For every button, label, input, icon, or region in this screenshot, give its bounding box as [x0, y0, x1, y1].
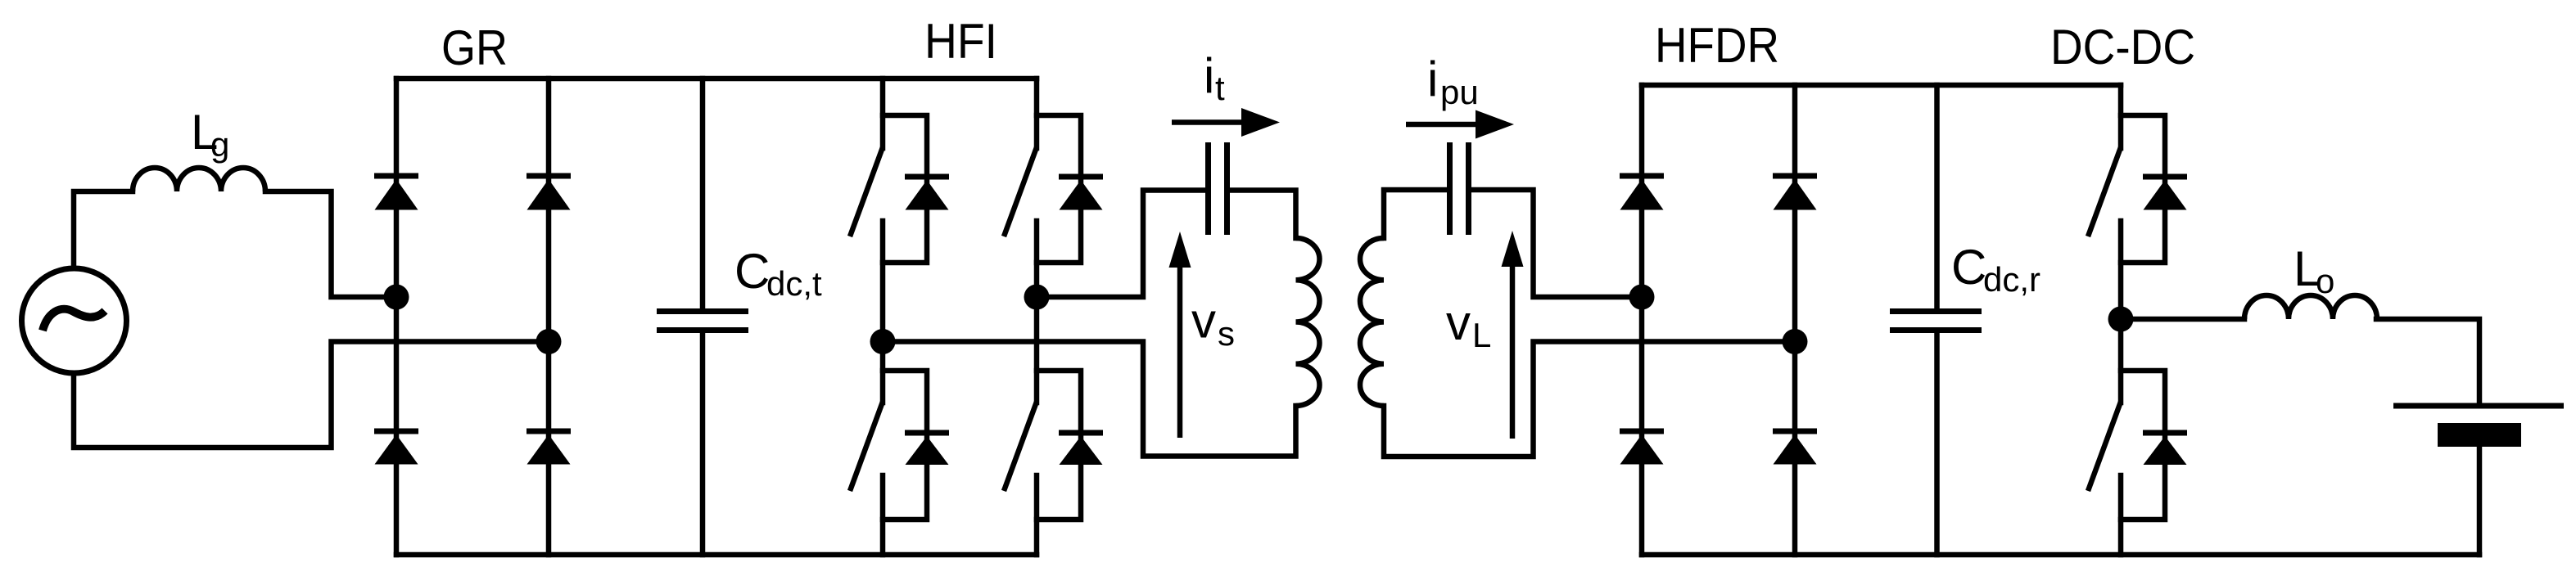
svg-text:DC-DC: DC-DC	[2050, 20, 2195, 74]
svg-text:s: s	[1218, 314, 1235, 353]
current arrow ipu shaft	[1406, 122, 1482, 128]
voltage arrow vs head	[1169, 232, 1191, 268]
transformer secondary coil Ls	[1360, 238, 1384, 406]
svg-text:i: i	[1427, 52, 1438, 106]
svg-text:dc,r: dc,r	[1983, 260, 2040, 299]
switch S3 (HFI leg2 top) upper stub	[1034, 79, 1040, 148]
switch S1 (HFI leg1 top) blade (open)	[850, 147, 883, 236]
node F (HFDR leg2 midpoint junction)	[1783, 329, 1808, 354]
current arrow it head	[1241, 108, 1280, 137]
voltage arrow vL head	[1502, 231, 1524, 267]
transformer primary coil Lp	[1296, 238, 1320, 406]
svg-text:v: v	[1191, 294, 1216, 349]
svg-text:GR: GR	[441, 20, 508, 75]
wire: HFI node D to tank, up left side to series cap	[1037, 191, 1205, 298]
svg-text:pu: pu	[1440, 73, 1479, 111]
wire: Lo to battery top	[2376, 319, 2479, 403]
wire: tank top left segment	[1384, 190, 1447, 238]
switch S6 (DC-DC bottom) blade (open)	[2088, 402, 2121, 491]
svg-text:HFI: HFI	[924, 14, 997, 69]
switch S2 (HFI leg1 bottom) lower stub	[880, 475, 886, 555]
svg-text:C: C	[1951, 240, 1986, 295]
capacitor Cdc,t plates	[657, 308, 748, 314]
wire: tank bottom side and lower wire to HFDR node F	[1384, 342, 1795, 457]
switch S2 (HFI leg1 bottom) antiparallel-diode branch wire	[883, 371, 927, 520]
node B (GR leg2 midpoint junction)	[536, 329, 562, 354]
node A (GR leg1 midpoint junction)	[384, 285, 409, 310]
wire: GR-HFI top DC bus	[396, 76, 1037, 82]
wire: HFDR leg 1 vertical	[1639, 85, 1645, 555]
capacitor Cdc,t leg wire	[700, 79, 706, 309]
AC source V1 circle	[22, 268, 127, 373]
switch S6 (DC-DC bottom) antiparallel-diode branch wire	[2121, 371, 2165, 520]
capacitor Cdc,r plates	[1890, 308, 1982, 314]
battery positive plate (long)	[2393, 403, 2564, 409]
voltage arrow vL shaft	[1510, 258, 1516, 439]
switch S5 (DC-DC top) blade (open)	[2088, 147, 2121, 236]
node D (HFI leg2 output junction)	[1024, 285, 1050, 310]
diode D8 (HFDR leg2 bottom)	[1773, 429, 1817, 434]
switch S1 (HFI leg1 top) upper stub	[880, 79, 886, 148]
wire: HFDR leg 2 vertical	[1792, 85, 1798, 555]
diode D6 (HFDR leg1 bottom)	[1620, 429, 1664, 434]
svg-text:HFDR: HFDR	[1655, 18, 1779, 73]
svg-text:dc,t: dc,t	[766, 264, 822, 303]
svg-text:i: i	[1204, 48, 1214, 103]
svg-text:g: g	[210, 125, 229, 164]
switch S3 (HFI leg2 top) antiparallel-diode branch wire	[1037, 115, 1081, 263]
svg-text:C: C	[734, 244, 770, 299]
wire: HFDR/DC-DC top DC bus	[1642, 83, 2121, 88]
inductor Lg	[133, 168, 265, 191]
capacitor Cs (series, primary) plates	[1205, 142, 1211, 235]
switch S4 (HFI leg2 bottom) upper stub	[1034, 297, 1040, 403]
diode D3 (GR leg2 top)	[526, 173, 571, 179]
capacitor Cdc,r leg wire	[1934, 85, 1940, 309]
switch S6 (DC-DC bottom) upper stub	[2118, 319, 2124, 403]
switch S4 (HFI leg2 bottom) lower stub	[1034, 475, 1040, 555]
switch S3 (HFI leg2 top) blade (open)	[1004, 147, 1037, 236]
svg-text:L: L	[1472, 316, 1491, 354]
wire: AC loop top-left (source top to Lg)	[74, 191, 133, 267]
node G (DC-DC midpoint junction)	[2108, 307, 2134, 332]
switch S1 (HFI leg1 top) antiparallel-diode branch wire	[883, 115, 927, 263]
antiparallel diode of S3 (HFI leg2 top)	[1059, 174, 1103, 180]
switch S4 (HFI leg2 bottom) antiparallel-diode branch wire	[1037, 371, 1081, 520]
switch S1 (HFI leg1 top) lower stub	[880, 221, 886, 342]
wire: tank top right segment	[1230, 191, 1296, 239]
switch S4 (HFI leg2 bottom) blade (open)	[1004, 402, 1037, 491]
antiparallel diode of S5 (DC-DC top)	[2143, 174, 2187, 180]
antiparallel diode of S1 (HFI leg1 top)	[905, 174, 949, 180]
antiparallel diode of S4 (HFI leg2 bottom)	[1059, 430, 1103, 436]
wire: DC-DC node G to Lo	[2121, 317, 2244, 322]
voltage arrow vs shaft	[1177, 258, 1183, 438]
wire: GR-HFI bottom DC bus	[396, 552, 1037, 558]
wire: HFDR node E to tank, up right side to series cap	[1471, 190, 1642, 297]
switch S5 (DC-DC top) antiparallel-diode branch wire	[2121, 115, 2165, 263]
diode D2 (GR leg1 bottom)	[374, 429, 418, 434]
inductor Lo	[2244, 295, 2377, 319]
current arrow it shaft	[1172, 119, 1249, 125]
switch S3 (HFI leg2 top) lower stub	[1034, 221, 1040, 297]
svg-text:v: v	[1446, 295, 1471, 350]
switch S6 (DC-DC bottom) lower stub	[2118, 475, 2124, 555]
svg-text:t: t	[1215, 69, 1225, 107]
diode D4 (GR leg2 bottom)	[526, 429, 571, 434]
wire: GR leg 1 vertical	[394, 79, 400, 555]
wire: GR leg 2 vertical	[546, 79, 552, 555]
AC source V1 sine tilde	[43, 309, 105, 331]
svg-text:o: o	[2316, 262, 2334, 300]
wire: HFDR/DC-DC bottom DC bus	[1642, 552, 2479, 558]
switch S5 (DC-DC top) upper stub	[2118, 85, 2124, 148]
wire: battery bottom to bus	[2477, 447, 2483, 555]
switch S5 (DC-DC top) lower stub	[2118, 221, 2124, 319]
wire: AC loop bottom (source bottom, lower wire to GR node B)	[74, 342, 549, 448]
switch S2 (HFI leg1 bottom) upper stub	[880, 342, 886, 403]
diode D5 (HFDR leg1 top)	[1620, 173, 1664, 179]
antiparallel diode of S6 (DC-DC bottom)	[2143, 430, 2187, 436]
node E (HFDR leg1 midpoint junction)	[1629, 285, 1655, 310]
diode D1 (GR leg1 top)	[374, 173, 418, 179]
current arrow ipu head	[1476, 110, 1514, 139]
node C (HFI leg1 output junction)	[870, 329, 896, 354]
wire: AC loop top-right (Lg to GR upper node)	[265, 191, 396, 297]
switch S2 (HFI leg1 bottom) blade (open)	[850, 402, 883, 491]
wire: tank bottom side and lower wire back to HFI node C	[883, 342, 1296, 457]
capacitor Cpu (series, secondary) plates	[1466, 142, 1471, 235]
antiparallel diode of S2 (HFI leg1 bottom)	[905, 430, 949, 436]
diode D7 (HFDR leg2 top)	[1773, 173, 1817, 179]
battery negative plate (short thick)	[2438, 423, 2521, 447]
